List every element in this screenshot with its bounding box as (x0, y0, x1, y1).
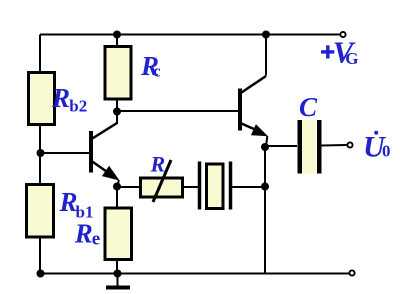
wire crystal to node (232, 186, 265, 188)
transistor Q2 (240, 76, 268, 147)
node bottom mid (114, 270, 122, 278)
node collector Q1 (113, 108, 121, 116)
transistor Q1 (91, 111, 120, 187)
resistor R variable (141, 152, 183, 203)
wire Rb2 to base node (39, 125, 41, 155)
wire Rb1 to bottom rail (39, 237, 41, 274)
terminal +VG (340, 32, 345, 37)
wire left vertical upper (39, 35, 41, 75)
resistor Re (74, 208, 132, 260)
wire Re to bottom rail (116, 260, 118, 274)
terminal output (347, 142, 352, 147)
svg-text:R: R (74, 219, 93, 249)
wire bottom rail (40, 273, 349, 275)
svg-text:b2: b2 (69, 97, 87, 116)
node top rail Rc (113, 31, 121, 39)
wire R to crystal (183, 186, 200, 188)
capacitor C (298, 92, 322, 174)
svg-text:0: 0 (382, 142, 391, 161)
svg-text:R: R (150, 152, 166, 177)
svg-text:e: e (92, 229, 100, 250)
node top rail collector (262, 31, 270, 39)
svg-text:c: c (153, 62, 161, 81)
label +VG (321, 35, 359, 70)
wire capacitor to output (321, 144, 347, 147)
node emitter Q2 (261, 143, 269, 151)
node base Q1 (37, 149, 45, 157)
terminal bottom right (349, 270, 354, 275)
wire base of Q1 (40, 152, 90, 154)
svg-text:C: C (299, 92, 318, 122)
crystal XT (200, 162, 231, 210)
wire emitter Q2 vertical (264, 147, 266, 274)
wire emitter node to capacitor (265, 145, 297, 147)
resistor Rb1 (27, 185, 94, 238)
resistor Rb2 (29, 73, 88, 125)
node bottom left (37, 270, 45, 278)
label Uo (363, 131, 391, 164)
svg-text:G: G (345, 49, 358, 68)
ground (106, 274, 130, 288)
node crystal junction (261, 183, 269, 191)
wire top rail to Rc (116, 35, 118, 49)
wire collector Q2 to top rail (265, 35, 267, 76)
wire node to base Q2 (117, 110, 239, 112)
wire emitter node to Re (116, 187, 118, 210)
svg-text:R: R (51, 83, 70, 113)
resistor Rc (105, 47, 161, 100)
wire base node to Rb1 (39, 153, 41, 186)
node emitter Q1 (113, 183, 121, 191)
wire emitter node to R (117, 186, 141, 188)
wire top rail (40, 34, 340, 36)
wire Rc to node (116, 99, 118, 111)
